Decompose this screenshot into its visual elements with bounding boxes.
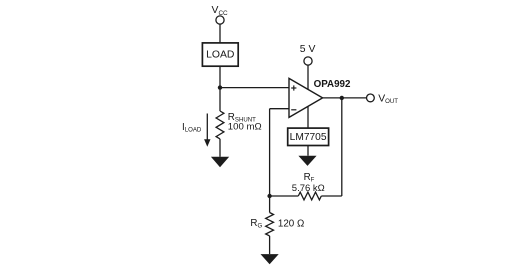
- svg-text:100 mΩ: 100 mΩ: [228, 122, 262, 133]
- svg-text:OPA992: OPA992: [314, 79, 351, 90]
- svg-text:LM7705: LM7705: [290, 132, 327, 143]
- svg-text:120 Ω: 120 Ω: [278, 218, 304, 229]
- svg-text:5 V: 5 V: [300, 44, 316, 55]
- svg-text:LOAD: LOAD: [206, 50, 234, 61]
- svg-text:5.76 kΩ: 5.76 kΩ: [292, 183, 325, 194]
